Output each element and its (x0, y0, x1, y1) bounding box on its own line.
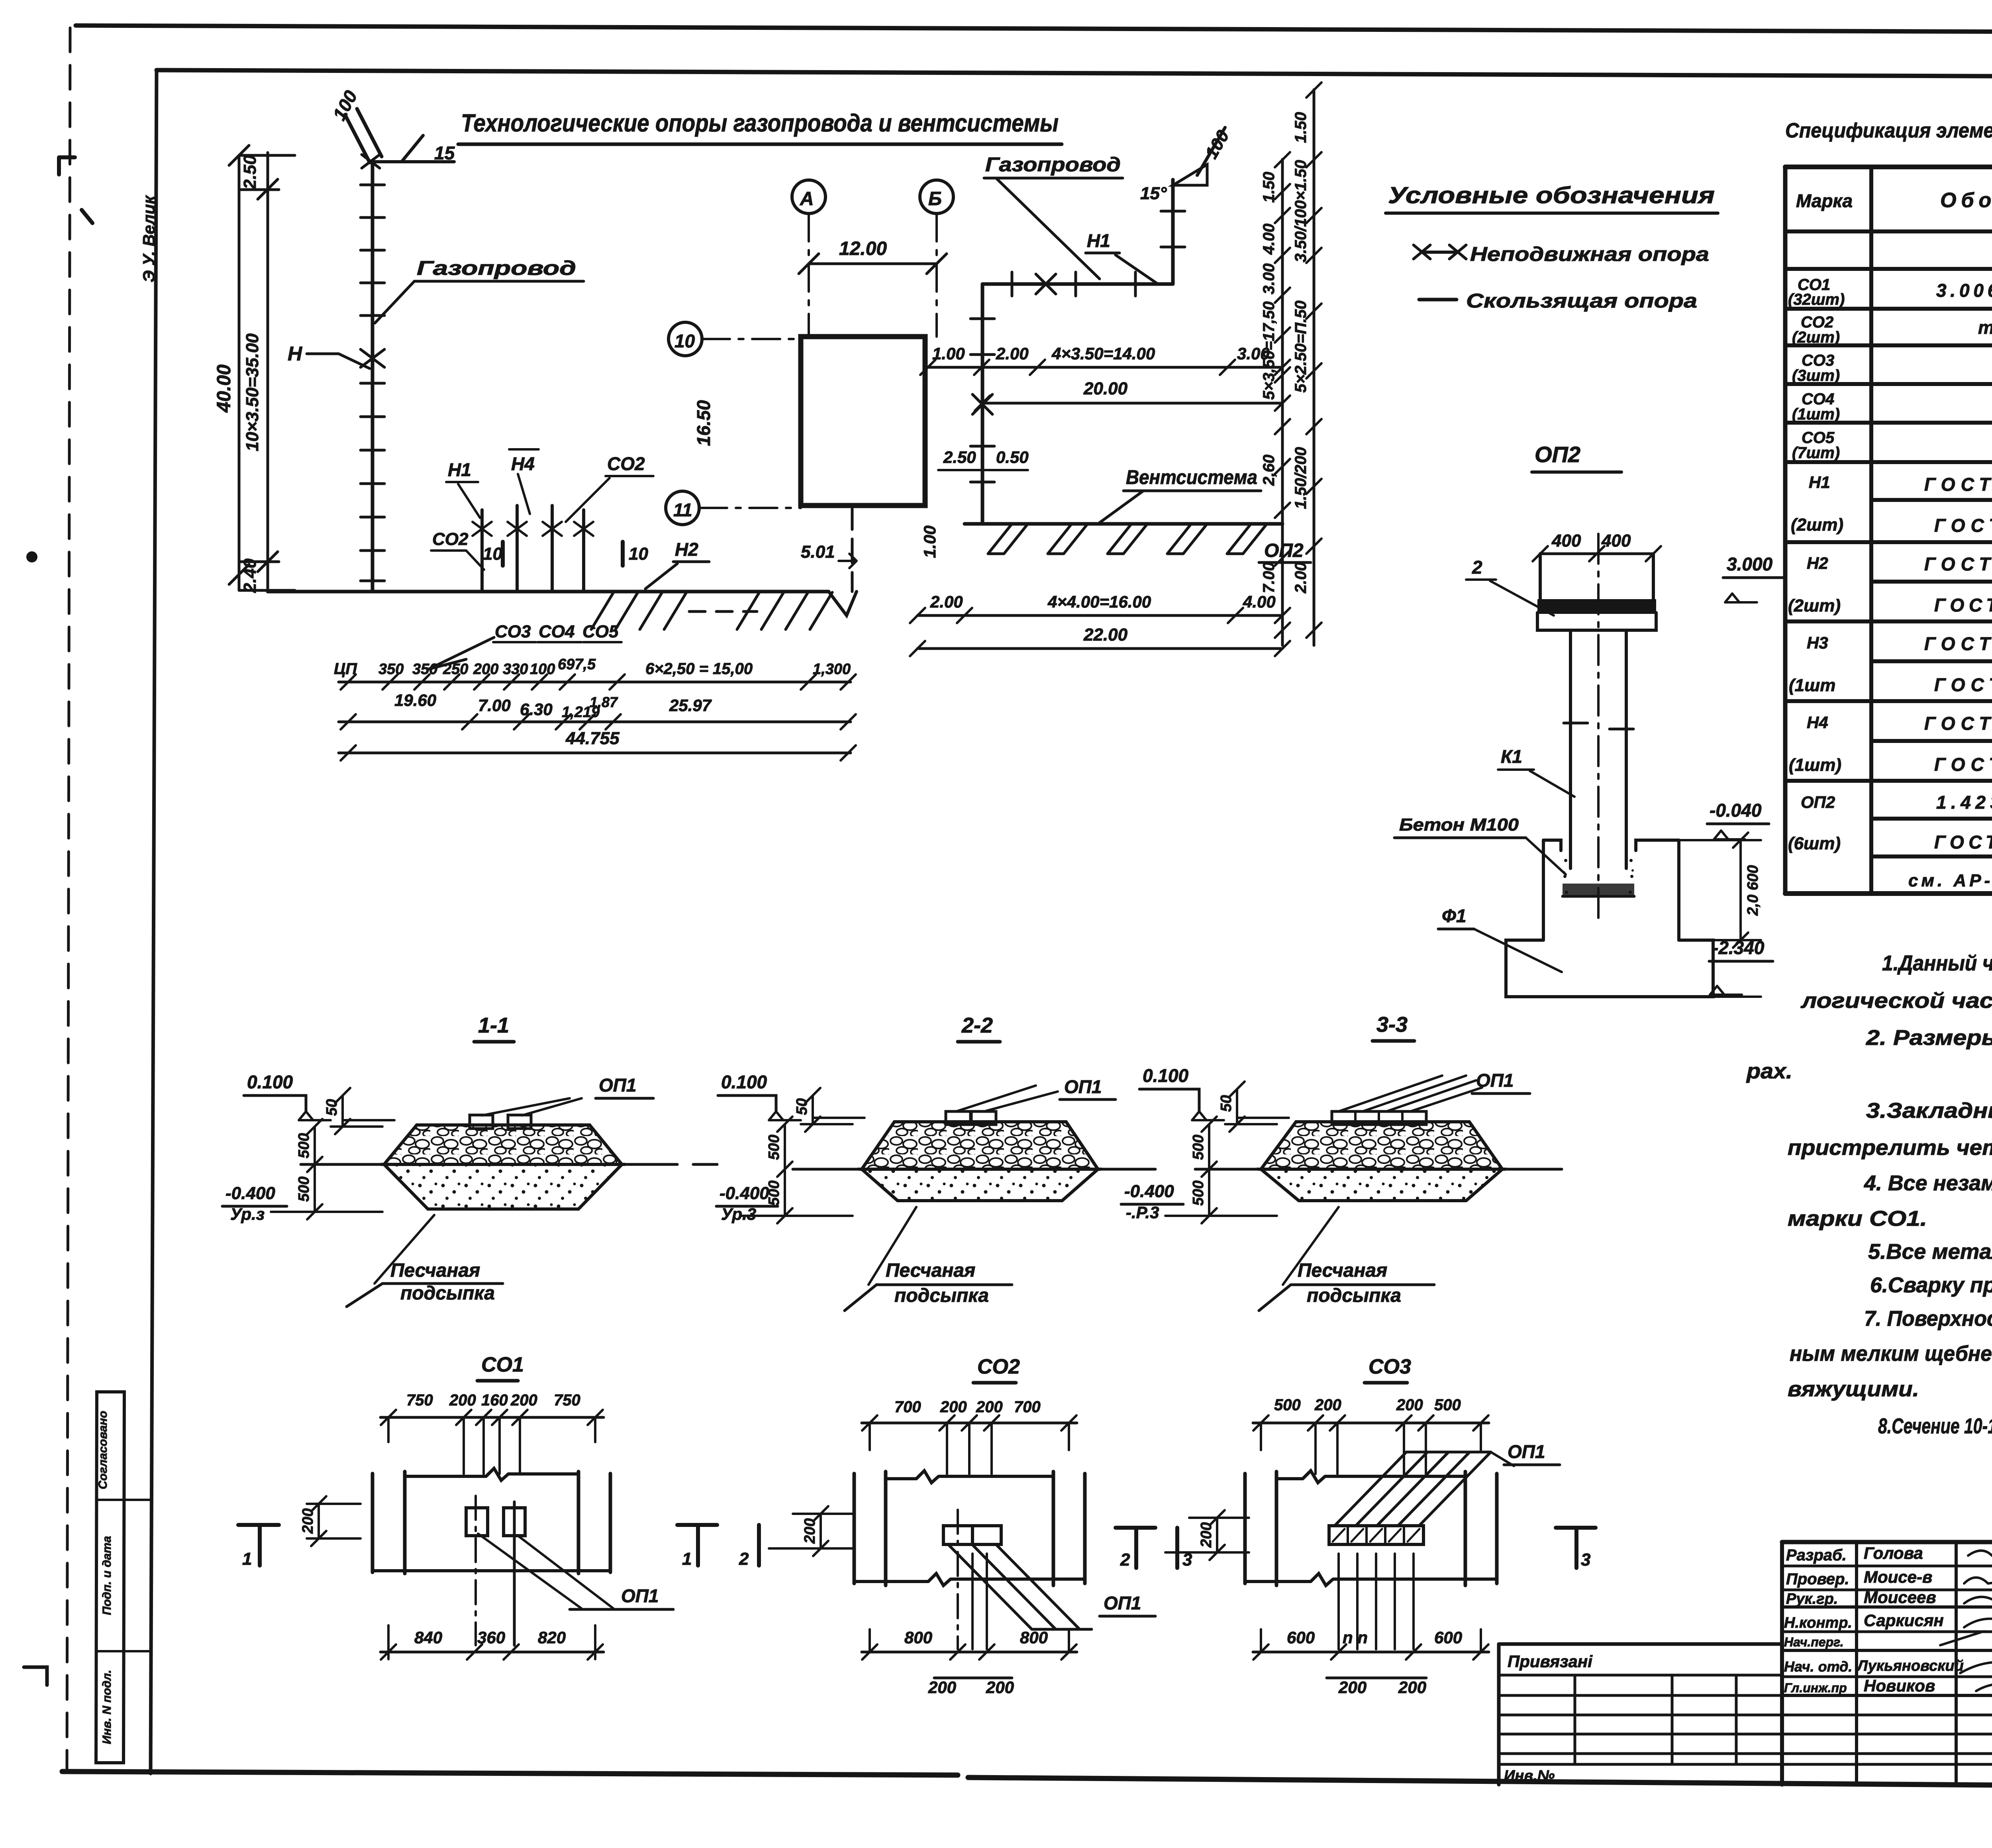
svg-text:500: 500 (766, 1135, 782, 1160)
svg-text:200: 200 (928, 1678, 956, 1697)
scan artifacts (59, 157, 92, 223)
svg-text:500: 500 (296, 1176, 312, 1201)
svg-text:Вентсистема: Вентсистема (1126, 466, 1257, 488)
CO2 right bar (1053, 1472, 1085, 1585)
CO1 left section mark 1 (238, 1525, 279, 1566)
CO3 left dim 200 (1165, 1510, 1249, 1560)
svg-text:10: 10 (483, 544, 502, 564)
shaft splice joint (1564, 723, 1633, 729)
svg-text:Лукьяновский: Лукьяновский (1856, 1658, 1964, 1674)
svg-text:200: 200 (449, 1391, 476, 1409)
svg-text:3-3: 3-3 (1376, 1013, 1408, 1037)
svg-text:Н: Н (288, 343, 302, 365)
svg-text:6.Сварку производить элект: 6.Сварку производить электродами Э-42 по… (1870, 1273, 1992, 1297)
svg-text:5.Все металлоконструкции ок: 5.Все металлоконструкции окрасить маслян… (1868, 1240, 1992, 1264)
svg-text:160: 160 (481, 1391, 508, 1409)
axis circle 10 (669, 322, 702, 356)
svg-text:25.97: 25.97 (669, 696, 712, 715)
svg-text:1.00: 1.00 (920, 525, 939, 558)
svg-text:15: 15 (434, 143, 455, 163)
svg-text:3.000: 3.000 (1727, 554, 1773, 574)
stamp outer top (1782, 1540, 1992, 1544)
CO3 channel diagonals up-right to OP1 (1335, 1452, 1491, 1526)
svg-text:Обозначение: Обозначение (1940, 189, 1992, 212)
CO1 bottom dims 840 360 820 (380, 1651, 604, 1654)
svg-text:50: 50 (1218, 1095, 1235, 1112)
svg-text:500: 500 (1190, 1135, 1207, 1160)
table horizontal lines (1785, 165, 1992, 169)
svg-text:Песчаная: Песчаная (1298, 1260, 1387, 1281)
svg-text:СО3: СО3 (495, 622, 531, 641)
svg-text:100: 100 (530, 661, 555, 678)
svg-text:20.00: 20.00 (1083, 379, 1128, 398)
svg-text:Марка: Марка (1796, 190, 1853, 211)
svg-text:1.00: 1.00 (932, 344, 965, 363)
right gas pipe: vertical at corner (1171, 180, 1175, 284)
svg-text:Моисеев: Моисеев (1864, 1588, 1936, 1607)
svg-text:Спецификация элементов к ма: Спецификация элементов к маркировочной с… (1785, 119, 1992, 142)
svg-text:2: 2 (739, 1549, 749, 1569)
svg-text:0.100: 0.100 (247, 1072, 293, 1092)
svg-text:К1: К1 (1501, 746, 1522, 767)
svg-text:5×2.50=П.50: 5×2.50=П.50 (1292, 300, 1310, 392)
SO DETAILS (238, 1353, 1596, 1697)
svg-text:1-1: 1-1 (478, 1013, 509, 1037)
svg-text:Э У. Велик: Э У. Велик (139, 195, 158, 282)
svg-text:пристрелить четырьмя дюбел: пристрелить четырьмя дюбелями ДГ-ХП-(4,5… (1788, 1136, 1992, 1160)
svg-text:4.00: 4.00 (1243, 592, 1276, 611)
CO2 beam top line with break (886, 1471, 1053, 1483)
fixed support cross on pipe (361, 349, 384, 367)
vertical pipe down to vent (981, 284, 984, 524)
socket concrete stipple (1563, 859, 1634, 894)
svg-text:200: 200 (1398, 1678, 1426, 1697)
section 3-3 dim 50 (1225, 1082, 1289, 1132)
CO1 pads (466, 1508, 488, 1536)
svg-text:2,60: 2,60 (1260, 455, 1278, 486)
svg-text:Н2: Н2 (675, 539, 698, 560)
svg-text:400: 400 (1601, 531, 1631, 551)
svg-text:2. Размеры на плане трас: 2. Размеры на плане трассы газопровода д… (1866, 1026, 1992, 1050)
section 2-2 mound sand part (862, 1169, 1098, 1201)
svg-text:3.00: 3.00 (1260, 263, 1278, 294)
svg-text:6.30: 6.30 (520, 700, 553, 719)
svg-text:12.00: 12.00 (839, 238, 887, 259)
right vertical dim chain 2 (1313, 90, 1316, 645)
svg-text:15°: 15° (1140, 184, 1167, 203)
svg-text:Б: Б (928, 188, 942, 210)
svg-text:Песчаная: Песчаная (390, 1260, 480, 1281)
column shaft (1570, 630, 1626, 868)
pipeline sliding-support ticks (361, 185, 384, 581)
foundation socket top (1543, 840, 1679, 851)
svg-text:Согласовано: Согласовано (96, 1411, 110, 1489)
svg-text:СО2: СО2 (432, 529, 469, 549)
svg-text:-0.040: -0.040 (1710, 800, 1762, 821)
section 3-3 pads strip on top (1332, 1111, 1426, 1125)
svg-text:3: 3 (1581, 1550, 1590, 1570)
svg-text:ОП1: ОП1 (599, 1075, 636, 1095)
svg-text:СО1: СО1 (481, 1353, 524, 1376)
svg-text:2,0 600: 2,0 600 (1745, 865, 1761, 916)
svg-text:-0.400: -0.400 (1124, 1182, 1174, 1201)
svg-text:200: 200 (1338, 1678, 1367, 1697)
svg-text:Разраб.: Разраб. (1786, 1546, 1847, 1564)
svg-text:(1шт: (1шт (1789, 676, 1835, 695)
svg-text:Моисе-в: Моисе-в (1864, 1568, 1932, 1586)
SPEC TABLE (1785, 119, 1992, 896)
svg-text:350: 350 (412, 661, 437, 678)
svg-text:Н2: Н2 (1807, 554, 1828, 572)
svg-text:50: 50 (794, 1098, 810, 1115)
svg-text:Скользящая опора: Скользящая опора (1466, 290, 1697, 312)
svg-text:-.Р.3: -.Р.3 (1126, 1203, 1159, 1222)
horizontal tie at bend with 15 dim (373, 160, 454, 163)
svg-text:-2.340: -2.340 (1712, 937, 1765, 958)
TITLE BLOCK (1499, 1542, 1992, 1789)
CO3 right section mark 3 (1556, 1528, 1596, 1568)
svg-text:200: 200 (300, 1508, 316, 1534)
svg-text:ОП1: ОП1 (1104, 1593, 1141, 1613)
SECTIONS (222, 1013, 1562, 1311)
svg-text:600: 600 (1434, 1628, 1462, 1647)
CO1 centerlines (474, 1496, 477, 1645)
svg-text:500: 500 (296, 1133, 312, 1158)
svg-text:5×3,50=17,50: 5×3,50=17,50 (1260, 302, 1278, 400)
svg-text:(32шт): (32шт) (1788, 291, 1845, 308)
svg-text:4×3.50=14.00: 4×3.50=14.00 (1051, 344, 1155, 363)
svg-text:200: 200 (986, 1678, 1014, 1697)
svg-text:А: А (800, 188, 814, 210)
CO3 right bar (1465, 1472, 1497, 1585)
CO2 left bar (854, 1472, 886, 1585)
stamp signatures squiggles (1968, 1551, 1992, 1559)
pipe bend going up-left (345, 115, 370, 163)
svg-text:Привязані: Привязані (1508, 1652, 1593, 1671)
table vertical lines (1783, 167, 1788, 894)
section 1-1 dim 50 (331, 1088, 394, 1134)
left outer dashed line (67, 28, 70, 1769)
svg-text:Н1: Н1 (1809, 473, 1830, 492)
legend item sliding support (1419, 298, 1457, 302)
svg-text:500: 500 (1190, 1180, 1207, 1205)
svg-text:Технологические опоры газопр: Технологические опоры газопровода и вент… (461, 110, 1059, 137)
CO2 bottom dims (862, 1651, 1077, 1654)
svg-text:СО3: СО3 (1369, 1355, 1411, 1378)
svg-text:4. Все незамаркированные: 4. Все незамаркированные на плане скольз… (1864, 1171, 1992, 1195)
svg-text:СО2: СО2 (977, 1355, 1020, 1378)
right gas pipe: horizontal run (982, 282, 1173, 286)
svg-text:1.50: 1.50 (1292, 112, 1310, 143)
section 2-2 dim 500 upper (777, 1117, 792, 1177)
svg-text:1.423-3 вып.1: 1.423-3 вып.1 (1936, 792, 1992, 813)
svg-text:СО4: СО4 (539, 622, 574, 641)
svg-text:то же: то же (1978, 317, 1992, 338)
frame left line (151, 70, 157, 1774)
column cap (1540, 554, 1653, 599)
CO3 pads strip with 5 cells (1329, 1526, 1423, 1544)
svg-text:Н3: Н3 (1807, 633, 1828, 652)
svg-text:200: 200 (1396, 1396, 1423, 1414)
svg-text:(3шт): (3шт) (1792, 367, 1840, 384)
svg-text:подсыпка: подсыпка (894, 1285, 989, 1306)
outer top scan line (76, 25, 1992, 33)
CO2 left dim 200 (769, 1506, 853, 1556)
left dimension chain inner (267, 153, 269, 590)
svg-text:1.Данный чертеж читать с: 1.Данный чертеж читать совместно с техно… (1882, 951, 1992, 975)
svg-text:840: 840 (414, 1628, 442, 1647)
svg-text:см. АР-11 альбом П: см. АР-11 альбом П (1908, 871, 1992, 890)
svg-text:-0.400: -0.400 (720, 1184, 769, 1203)
CO2 channel diagonals to OP1 (948, 1544, 1092, 1629)
svg-text:200: 200 (510, 1391, 537, 1409)
svg-text:500: 500 (1434, 1396, 1461, 1414)
svg-text:(2шт): (2шт) (1788, 596, 1841, 615)
svg-text:марки СО1.: марки СО1. (1788, 1207, 1927, 1231)
CO3 beam bottom line with break (1245, 1574, 1497, 1585)
svg-text:11: 11 (673, 500, 692, 520)
svg-text:Неподвижная опора: Неподвижная опора (1470, 243, 1709, 265)
svg-text:10×3.50=35.00: 10×3.50=35.00 (243, 333, 262, 451)
svg-text:ОП2: ОП2 (1535, 442, 1580, 467)
svg-text:Голова: Голова (1864, 1544, 1923, 1562)
section cut 10-10 flags (501, 542, 505, 566)
svg-text:2.00: 2.00 (996, 344, 1029, 363)
svg-text:ОП1: ОП1 (621, 1585, 659, 1606)
svg-text:22.00: 22.00 (1083, 625, 1128, 645)
section 1-1 mound sand part (384, 1164, 622, 1209)
svg-text:Нач. отд.: Нач. отд. (1784, 1658, 1852, 1675)
svg-text:7.00: 7.00 (478, 696, 511, 715)
svg-text:3.Закладные детали поз.1: 3.Закладные детали поз.1 на неподвижных … (1866, 1099, 1992, 1123)
svg-text:10: 10 (674, 331, 695, 351)
svg-text:500: 500 (1274, 1396, 1301, 1414)
CO1 beam bottom line (373, 1569, 610, 1572)
svg-text:6×2,50 = 15,00: 6×2,50 = 15,00 (645, 660, 753, 678)
CO3 beam top line with break (1276, 1471, 1465, 1483)
svg-text:Рук.гр.: Рук.гр. (1786, 1591, 1838, 1607)
section 1-1 ground dash line (301, 1163, 677, 1166)
svg-text:697,5: 697,5 (558, 656, 596, 673)
left attachment table (1499, 1642, 1782, 1646)
PLAN (214, 82, 1321, 760)
svg-text:-0.400: -0.400 (225, 1184, 275, 1203)
svg-text:600: 600 (1287, 1628, 1315, 1647)
section 2-2 pads on top (946, 1111, 971, 1125)
stamp name-block verticals (1780, 1542, 1784, 1785)
svg-text:ОП1: ОП1 (1508, 1441, 1545, 1462)
svg-text:n n: n n (1343, 1628, 1368, 1647)
small supports cluster H1 H4 CO2 (482, 506, 584, 592)
svg-text:200: 200 (940, 1398, 967, 1416)
NOTES (1746, 951, 1992, 1438)
svg-text:200: 200 (1198, 1522, 1215, 1548)
CO1 left dim 200 (307, 1496, 361, 1546)
svg-text:16.50: 16.50 (693, 400, 714, 446)
svg-text:1.50: 1.50 (1260, 172, 1278, 203)
vent support slash groups (988, 524, 1028, 554)
svg-text:(1шт): (1шт) (1792, 406, 1840, 423)
svg-text:СО2: СО2 (607, 453, 645, 474)
CO3 left bar (1245, 1472, 1276, 1585)
svg-text:Газопровод: Газопровод (417, 257, 576, 279)
svg-text:Новиков: Новиков (1864, 1676, 1935, 1695)
svg-text:ОП2: ОП2 (1801, 793, 1835, 811)
svg-text:Н1: Н1 (448, 459, 471, 480)
svg-text:2.00: 2.00 (930, 592, 963, 611)
svg-text:подсыпка: подсыпка (400, 1283, 495, 1304)
pipe drop from building (851, 506, 854, 592)
CO1 beam top line with break (405, 1468, 578, 1480)
CO3 bottom dims (1253, 1651, 1489, 1654)
svg-text:200: 200 (802, 1518, 818, 1544)
ground hatch slashes (591, 592, 686, 629)
svg-text:ным мелким щебнем слоем: ным мелким щебнем слоем 100 мм с проливк… (1790, 1342, 1992, 1366)
section 2-2 dim 50 (801, 1088, 865, 1132)
right vertical dim chain 1 (1281, 159, 1284, 645)
svg-text:рах.: рах. (1746, 1059, 1792, 1083)
svg-text:400: 400 (1551, 531, 1581, 551)
OP2 DETAIL (1394, 442, 1783, 997)
foundation lower slab (1506, 940, 1713, 997)
svg-text:подсыпка: подсыпка (1307, 1285, 1401, 1306)
section 1-1 dim 500 upper (307, 1119, 322, 1172)
svg-text:250: 250 (443, 661, 468, 678)
svg-text:2.00: 2.00 (1292, 562, 1310, 594)
svg-text:700: 700 (894, 1398, 921, 1416)
svg-text:700: 700 (1014, 1398, 1041, 1416)
svg-text:Газопровод: Газопровод (985, 153, 1121, 176)
axis circle B (920, 180, 953, 214)
svg-text:(2шт): (2шт) (1792, 329, 1840, 346)
100 rotated top right (1197, 127, 1225, 175)
vertical stamp box bottom-left (96, 1392, 124, 1763)
left dimension chain outer 40.00 (238, 155, 241, 590)
svg-text:2-2: 2-2 (961, 1013, 993, 1037)
svg-text:Провер.: Провер. (1786, 1570, 1849, 1588)
svg-text:800: 800 (1020, 1628, 1048, 1647)
svg-text:800: 800 (904, 1628, 932, 1647)
svg-text:Гл.инж.пр: Гл.инж.пр (1784, 1681, 1847, 1695)
svg-text:СО5: СО5 (582, 622, 619, 641)
section 1-1 dim 500 lower (271, 1164, 382, 1219)
svg-text:1: 1 (682, 1549, 692, 1569)
svg-text:2: 2 (1120, 1550, 1130, 1570)
section 3-3 dim 500 upper (1202, 1117, 1217, 1177)
svg-text:вяжущими.: вяжущими. (1788, 1377, 1919, 1401)
svg-text:200: 200 (1314, 1396, 1341, 1414)
CO1 left bar (373, 1472, 405, 1574)
svg-text:10: 10 (629, 544, 648, 564)
CO2 pads pair (943, 1526, 972, 1544)
section 3-3 ground dash line (1195, 1168, 1562, 1171)
axis circle 11 (666, 491, 699, 525)
svg-text:2.50: 2.50 (943, 448, 976, 466)
svg-text:Ф1: Ф1 (1442, 905, 1467, 926)
svg-text:Инв.№: Инв.№ (1504, 1768, 1555, 1784)
svg-text:логической частью проекта.: логической частью проекта. Альбом Ш лист… (1800, 989, 1992, 1013)
svg-text:Условные обозначения: Условные обозначения (1388, 182, 1715, 208)
CO2 beam bottom line with break (854, 1574, 1085, 1585)
svg-text:200: 200 (976, 1398, 1003, 1416)
svg-text:Н.контр.: Н.контр. (1784, 1615, 1852, 1631)
building rectangle (801, 337, 925, 506)
svg-text:2.50: 2.50 (240, 155, 260, 190)
svg-text:Саркисян: Саркисян (1864, 1611, 1944, 1630)
svg-text:(7шт): (7шт) (1792, 444, 1840, 462)
svg-text:330: 330 (503, 661, 528, 678)
svg-text:19.60: 19.60 (394, 691, 436, 709)
svg-text:7. Поверхность песчаной по: 7. Поверхность песчаной подсыпки покрыть… (1864, 1307, 1992, 1331)
svg-text:Песчаная: Песчаная (886, 1260, 975, 1281)
svg-text:Н4: Н4 (1807, 713, 1828, 732)
section 3-3 mound stones part (1261, 1122, 1502, 1169)
svg-text:1: 1 (242, 1549, 252, 1569)
svg-text:0.100: 0.100 (1143, 1065, 1189, 1086)
gas pipeline main vertical run (371, 162, 374, 592)
svg-text:750: 750 (406, 1391, 433, 1409)
svg-text:820: 820 (538, 1628, 566, 1647)
LEGEND (1386, 182, 1718, 312)
svg-text:4×4.00=16.00: 4×4.00=16.00 (1047, 592, 1151, 611)
svg-text:44.755: 44.755 (565, 729, 620, 748)
svg-text:Ур.з: Ур.з (230, 1205, 265, 1223)
svg-text:350: 350 (378, 661, 404, 678)
svg-text:1.50/200: 1.50/200 (1292, 447, 1310, 509)
svg-text:40.00: 40.00 (214, 365, 235, 413)
svg-text:7.00: 7.00 (1260, 562, 1278, 593)
side dims 200 600 (1739, 840, 1742, 940)
frame bottom line (62, 1772, 958, 1775)
section 1-1 mound stones part (384, 1125, 622, 1164)
svg-text:750: 750 (554, 1391, 580, 1409)
svg-text:Н4: Н4 (511, 453, 535, 474)
section 3-3 dim 500 lower (1165, 1169, 1277, 1223)
svg-text:(1шт): (1шт) (1789, 755, 1841, 775)
svg-text:(6шт): (6шт) (1788, 834, 1841, 853)
CO2 right section marks 2 3 (1116, 1528, 1155, 1568)
svg-text:Ур.3: Ур.3 (721, 1205, 756, 1223)
legend item fixed support (1414, 245, 1430, 259)
svg-text:Бетон М100: Бетон М100 (1399, 815, 1519, 835)
ground line (268, 590, 829, 594)
svg-text:2: 2 (1472, 557, 1482, 578)
CO2 verticals below (957, 1510, 959, 1649)
axis circle A (792, 180, 825, 214)
svg-text:Нач.перг.: Нач.перг. (1784, 1635, 1844, 1649)
stamp name rows (1782, 1565, 1992, 1568)
svg-text:1,87: 1,87 (590, 694, 618, 710)
svg-text:3.50/100×1.50: 3.50/100×1.50 (1292, 160, 1310, 263)
svg-text:2.40: 2.40 (240, 559, 260, 593)
svg-text:200: 200 (473, 661, 498, 678)
svg-text:50: 50 (324, 1099, 340, 1116)
svg-text:0.50: 0.50 (996, 448, 1029, 466)
section 2-2 mound stones part (862, 1122, 1098, 1169)
CO3 verticals below (1339, 1554, 1414, 1649)
section 2-2 dim 500 lower (741, 1169, 853, 1223)
CO1 right section marks 1 2 (677, 1525, 717, 1566)
svg-text:Инв. N подл.: Инв. N подл. (100, 1670, 114, 1744)
svg-text:360: 360 (477, 1628, 505, 1647)
svg-text:5.01: 5.01 (801, 542, 835, 562)
svg-text:8.Сечение 10-10 смотри ч: 8.Сечение 10-10 смотри чертеж АР л. 2. (1878, 1414, 1992, 1438)
svg-text:1,300: 1,300 (813, 661, 851, 678)
svg-text:0.100: 0.100 (721, 1072, 767, 1092)
frame top line (157, 70, 1992, 78)
section 3-3 mound sand part (1261, 1169, 1502, 1201)
section 1-1 pads on top (470, 1115, 493, 1129)
